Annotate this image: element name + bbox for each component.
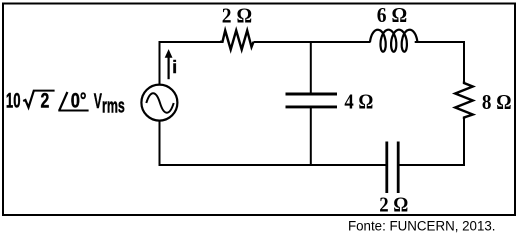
source label: angle underline bbox=[58, 110, 88, 112]
wire: left branch from source top up and right to resistor R1 bbox=[160, 42, 221, 84]
wire: junction from top wire down to capacitor C1 bbox=[310, 42, 312, 95]
svg-text:10: 10 bbox=[6, 89, 21, 113]
wire: bottom from C2 left plate to below source bbox=[160, 121, 386, 165]
svg-text:8 Ω: 8 Ω bbox=[482, 90, 512, 114]
capacitor C2 2ohm left plate bbox=[385, 142, 388, 194]
svg-text:Fonte: FUNCERN, 2013.: Fonte: FUNCERN, 2013. bbox=[348, 219, 496, 234]
source label: radical overbar bbox=[33, 90, 55, 92]
source label: angle slash bbox=[59, 92, 67, 111]
svg-text:2: 2 bbox=[41, 89, 50, 113]
current arrow i head bbox=[165, 49, 173, 58]
svg-text:0°: 0° bbox=[71, 89, 87, 113]
capacitor C1 4ohm top plate bbox=[286, 93, 338, 96]
resistor R2 8ohm vertical zigzag bbox=[455, 82, 473, 120]
svg-text:2 Ω: 2 Ω bbox=[379, 193, 408, 217]
capacitor C2 2ohm right plate bbox=[397, 142, 400, 194]
svg-text:i: i bbox=[172, 57, 177, 77]
wire: top middle between R1 and L1 bbox=[254, 41, 371, 43]
wire: middle branch below C1 to bottom wire junction bbox=[310, 107, 312, 166]
svg-text:2 Ω: 2 Ω bbox=[222, 3, 252, 27]
svg-text:V: V bbox=[94, 89, 103, 113]
svg-text:6 Ω: 6 Ω bbox=[377, 3, 407, 27]
inductor L1 6ohm coil bbox=[370, 30, 417, 52]
svg-text:4 Ω: 4 Ω bbox=[344, 90, 373, 114]
source label: radical sign bbox=[23, 91, 34, 108]
source V1 ac circle bbox=[141, 85, 177, 121]
sine wave inside source bbox=[146, 93, 173, 113]
current arrow i shaft bbox=[168, 57, 170, 80]
wire: top right from L1 to corner down to resistor R2 bbox=[415, 42, 464, 82]
capacitor C1 4ohm bottom plate bbox=[286, 105, 338, 108]
wire: right branch below R2 to bottom right corner bbox=[400, 119, 465, 165]
svg-text:rms: rms bbox=[102, 95, 125, 117]
resistor R1 2ohm zigzag bbox=[220, 31, 254, 50]
